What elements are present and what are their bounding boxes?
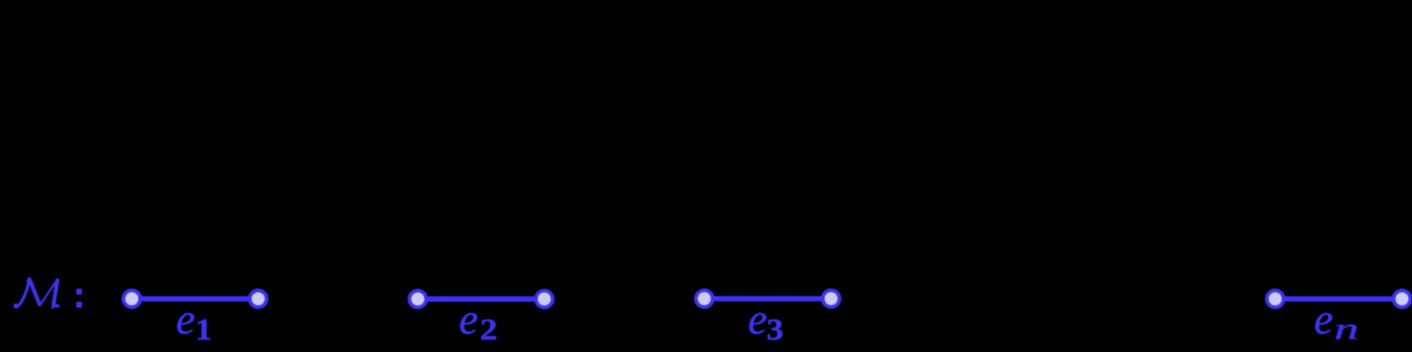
- node e1 right: [250, 291, 267, 308]
- label e1: [176, 297, 212, 347]
- node e2 right: [536, 291, 553, 308]
- svg-text:2: 2: [480, 313, 498, 347]
- node e1 left: [124, 290, 141, 307]
- svg-text:e: e: [748, 297, 767, 344]
- node e3 left: [696, 290, 713, 307]
- node en left: [1267, 291, 1284, 308]
- colon after M: [76, 289, 82, 308]
- edge e3 wire: [705, 296, 832, 301]
- label e2: [459, 297, 497, 347]
- label M (script M for the matching): [14, 279, 60, 309]
- edge e2 wire: [418, 296, 544, 301]
- edge e1 wire: [132, 296, 258, 301]
- svg-text:3: 3: [767, 313, 784, 347]
- edge en wire: [1275, 296, 1402, 301]
- node en right: [1394, 291, 1411, 308]
- label e3: [748, 297, 784, 348]
- node e2 left: [410, 291, 427, 308]
- svg-text:n: n: [1334, 311, 1358, 346]
- svg-text:e: e: [176, 297, 195, 344]
- label en: [1314, 297, 1359, 347]
- svg-text:e: e: [459, 297, 478, 344]
- node e3 right: [823, 290, 840, 307]
- svg-text:1: 1: [195, 312, 212, 347]
- svg-text:e: e: [1314, 297, 1333, 344]
